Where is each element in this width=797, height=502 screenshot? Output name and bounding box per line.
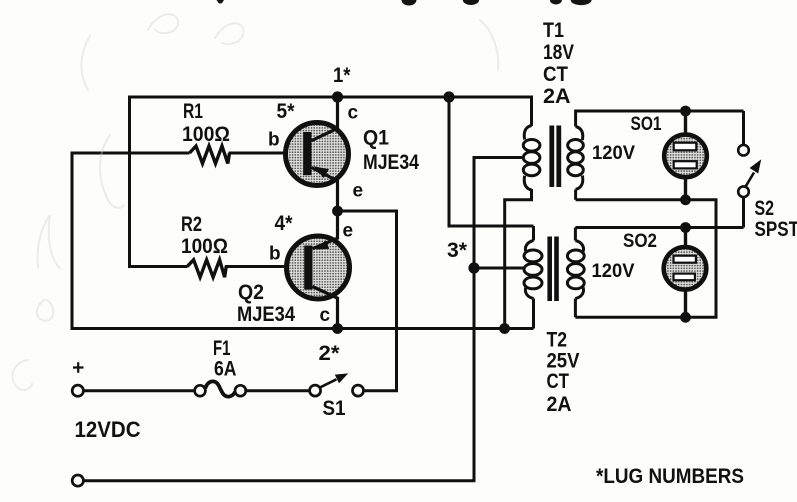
svg-text:T2: T2 [547, 329, 568, 352]
wire bottom rail [72, 327, 534, 330]
label R1 value 100ohm [182, 123, 230, 146]
svg-text:2A: 2A [547, 393, 572, 416]
label LUG NUMBERS note [596, 465, 744, 488]
junction dot bottom rail [499, 323, 510, 334]
transformer T2 [524, 226, 584, 329]
label Q1 pin b [268, 130, 280, 151]
svg-text:Q2: Q2 [238, 281, 264, 304]
label S1 [323, 397, 346, 420]
label T1 [543, 19, 564, 42]
label T1 18V [543, 41, 574, 64]
label Q2 pin c [320, 305, 331, 326]
wire T1 primary bottom to rail [505, 189, 532, 329]
label Q2 [238, 281, 264, 304]
label Q1 type MJE34 [363, 151, 419, 174]
label Q1 pin c [348, 103, 359, 124]
svg-text:CT: CT [543, 63, 568, 86]
svg-text:SO1: SO1 [631, 114, 662, 135]
terminal bottom minus [72, 475, 83, 486]
svg-text:100Ω: 100Ω [181, 235, 228, 258]
wire SO1 bottom rail to SO2 bottom rail [575, 200, 716, 317]
label R2 value 100ohm [181, 235, 228, 258]
svg-text:T1: T1 [543, 19, 564, 42]
socket SO1 [664, 111, 707, 200]
junction emitter node [332, 206, 343, 217]
wire R2 base line [128, 265, 305, 268]
label T1 CT [543, 63, 568, 86]
junction SO1 top [680, 106, 691, 117]
wire T2 center tap [474, 267, 524, 270]
svg-text:R1: R1 [183, 100, 203, 123]
wire R1 base line [71, 152, 304, 155]
svg-text:e: e [343, 221, 354, 242]
label R1 [183, 100, 203, 123]
wire plus terminal to F1 [83, 389, 194, 392]
svg-text:CT: CT [547, 370, 570, 393]
junction node 3* [468, 262, 479, 273]
socket SO2 [664, 228, 707, 318]
wire F1 to S1 [246, 389, 310, 392]
label Q1 pin e [353, 181, 364, 202]
junction dot top rail [443, 91, 454, 102]
junction SO2 bottom [680, 312, 691, 323]
transistor Q2 [287, 210, 350, 329]
terminal plus 12VDC [72, 362, 83, 396]
junction node 1* [332, 91, 343, 102]
junction SO1 bottom [680, 194, 691, 205]
fuse F1 [195, 381, 246, 396]
label lug 1* [333, 64, 351, 87]
wire center tap return (T1 CT to bottom terminal) [84, 158, 524, 481]
wire outer-left vertical (R1 feedback) [71, 153, 74, 330]
resistor R2 [187, 260, 226, 277]
svg-text:MJE34: MJE34 [237, 303, 295, 326]
svg-text:MJE34: MJE34 [363, 151, 419, 174]
svg-text:S1: S1 [323, 397, 346, 420]
transformer T1 [523, 96, 583, 200]
svg-text:12VDC: 12VDC [75, 417, 141, 442]
svg-text:SPST: SPST [755, 218, 797, 241]
label R2 [181, 213, 202, 236]
label F1 6A [214, 358, 237, 381]
label lug 4* [275, 212, 294, 235]
label F1 [213, 337, 231, 360]
svg-text:6A: 6A [214, 358, 237, 381]
label Q1 [363, 127, 389, 150]
resistor R1 [190, 146, 230, 164]
label SO2 [623, 231, 657, 252]
svg-text:b: b [269, 244, 281, 265]
svg-text:4*: 4* [275, 212, 294, 235]
wire SO2 top rail [575, 226, 743, 229]
svg-text:*LUG NUMBERS: *LUG NUMBERS [596, 465, 744, 488]
svg-text:2A: 2A [543, 85, 571, 108]
svg-text:2*: 2* [319, 342, 341, 365]
label Q2 pin b [269, 244, 281, 265]
svg-text:e: e [353, 181, 364, 202]
switch S1 [310, 373, 364, 396]
svg-text:Q1: Q1 [363, 127, 389, 150]
svg-text:120V: 120V [592, 142, 635, 164]
label T2 25V [547, 350, 580, 373]
label SO2 120V [592, 260, 635, 282]
label Q2 pin e [343, 221, 354, 242]
label S2 SPST [755, 218, 797, 241]
svg-text:b: b [268, 130, 280, 151]
label T1 2A [543, 85, 571, 108]
svg-text:3*: 3* [447, 239, 468, 262]
pencil smudges background [12, 14, 498, 390]
switch S2 [738, 111, 761, 228]
svg-text:R2: R2 [181, 213, 202, 236]
label T2 CT [547, 370, 570, 393]
svg-text:1*: 1* [333, 64, 351, 87]
label Q2 type MJE34 [237, 303, 295, 326]
label lug 5* [277, 100, 296, 123]
label 12VDC [75, 417, 141, 442]
svg-text:5*: 5* [277, 100, 296, 123]
svg-text:120V: 120V [592, 260, 635, 282]
svg-text:18V: 18V [543, 41, 574, 64]
wire emitter node to S1 [338, 211, 397, 391]
label T2 2A [547, 393, 572, 416]
label lug 2* [319, 342, 341, 365]
wire top rail to T2 primary top [449, 97, 534, 226]
wire top rail node1 [130, 96, 532, 99]
label S2 [755, 197, 775, 220]
label lug 3* [447, 239, 468, 262]
label SO1 [631, 114, 662, 135]
junction SO2 top [680, 222, 691, 233]
svg-text:S2: S2 [755, 197, 775, 220]
label T2 [547, 329, 568, 352]
wire left vertical feedback to R2 [128, 96, 131, 267]
junction node 2* [332, 323, 343, 334]
svg-text:c: c [348, 103, 359, 124]
svg-text:c: c [320, 305, 331, 326]
label SO1 120V [592, 142, 635, 164]
caption descender fragments top edge [217, 0, 592, 6]
svg-text:100Ω: 100Ω [182, 123, 230, 146]
transistor Q1 [286, 97, 349, 212]
svg-text:SO2: SO2 [623, 231, 657, 252]
wire SO1 top rail [576, 110, 744, 113]
